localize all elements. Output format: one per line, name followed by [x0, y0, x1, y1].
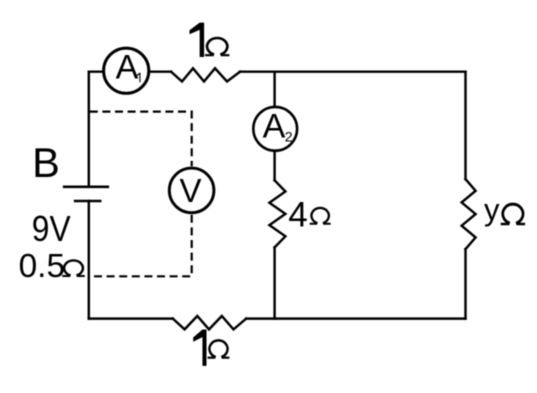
- wire right upper: [464, 72, 466, 179]
- wire bottom left: [89, 317, 173, 319]
- label 1 bottom: [193, 330, 206, 366]
- svg-text:V: V: [180, 172, 202, 209]
- label omega bottom: [208, 340, 230, 357]
- dashed wire top: [90, 112, 192, 167]
- label omega of 4: [310, 208, 331, 224]
- label omega top: [205, 38, 229, 55]
- resistor R bottom 1ohm: [173, 316, 246, 329]
- battery B plate long: [64, 186, 108, 189]
- wire middle branch upper: [273, 72, 275, 107]
- wire A1 to resistor: [149, 70, 171, 72]
- svg-text:A: A: [116, 48, 139, 86]
- ammeter A2 circle: [253, 107, 297, 151]
- svg-text:9V: 9V: [32, 209, 71, 249]
- svg-text:2: 2: [285, 129, 293, 145]
- label sub 1 of A1: [137, 73, 141, 82]
- ammeter A1 circle: [104, 48, 149, 93]
- wire top-left stub: [89, 70, 104, 72]
- svg-text:0.5: 0.5: [19, 248, 65, 285]
- voltmeter V circle: [169, 168, 214, 213]
- wire left lower: [88, 201, 90, 319]
- dashed wire bottom: [90, 215, 192, 276]
- wire right lower: [464, 249, 466, 319]
- wire A2 to resistor: [273, 152, 275, 181]
- label omega of y: [501, 204, 525, 224]
- wire top right: [240, 70, 466, 72]
- label 1 top: [190, 23, 205, 57]
- svg-text:B: B: [32, 139, 60, 186]
- wire left upper: [88, 72, 90, 187]
- resistor y ohm: [462, 179, 476, 249]
- svg-text:4: 4: [288, 195, 307, 234]
- resistor R top 1ohm: [171, 68, 240, 81]
- battery B plate short: [75, 200, 100, 203]
- svg-text:y: y: [484, 192, 500, 227]
- wire bottom right: [246, 317, 465, 319]
- svg-text:A: A: [263, 108, 286, 146]
- wire middle branch lower: [273, 247, 275, 318]
- resistor 4 ohm: [269, 180, 285, 247]
- dashed voltmeter leads: [90, 112, 192, 277]
- label omega of 0.5: [62, 260, 85, 276]
